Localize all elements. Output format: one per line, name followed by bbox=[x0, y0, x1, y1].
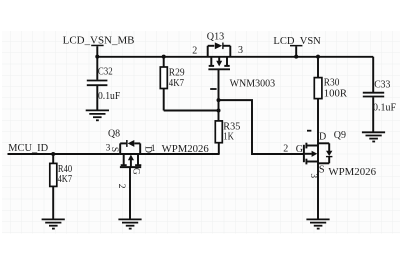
svg-text:4K7: 4K7 bbox=[169, 78, 184, 89]
svg-text:S: S bbox=[319, 164, 325, 175]
gate plate bbox=[120, 166, 141, 168]
resistor R30 bbox=[314, 55, 348, 142]
resistor R35 bbox=[215, 121, 240, 154]
svg-text:C32: C32 bbox=[98, 66, 113, 77]
wire port tick bbox=[295, 46, 297, 56]
pin 1 label (rotated) bbox=[307, 130, 311, 132]
wire R35 bottom to Q8 drain bbox=[142, 153, 220, 155]
svg-text:1: 1 bbox=[151, 144, 156, 154]
resistor R40 bbox=[50, 154, 72, 219]
left contact bbox=[123, 154, 125, 165]
main wire through symbol bbox=[119, 153, 141, 155]
svg-text:MCU_ID: MCU_ID bbox=[8, 142, 48, 154]
top contact bbox=[307, 145, 318, 147]
grid background bbox=[2, 31, 400, 234]
wire to Q9 gate bbox=[219, 100, 304, 154]
drain wire / bus bbox=[317, 142, 319, 166]
node junction gate net 1 bbox=[217, 98, 221, 102]
ground (R40) bbox=[42, 219, 65, 228]
arrow (points right) bbox=[305, 153, 312, 155]
svg-text:LCD_VSN_MB: LCD_VSN_MB bbox=[63, 34, 135, 46]
capacitor C33 bbox=[363, 57, 396, 132]
svg-text:3: 3 bbox=[238, 45, 243, 56]
right contact bbox=[137, 154, 139, 165]
svg-text:S: S bbox=[109, 147, 119, 152]
svg-text:WPM2026: WPM2026 bbox=[328, 167, 376, 178]
svg-text:WPM2026: WPM2026 bbox=[162, 144, 209, 155]
transistor Q8 bbox=[106, 129, 209, 219]
svg-text:100R: 100R bbox=[324, 88, 348, 99]
wire top rail bbox=[97, 56, 373, 58]
body diode loop bbox=[207, 46, 209, 57]
node junction R40 bbox=[51, 152, 55, 156]
bottom contact bbox=[307, 161, 318, 163]
gate wire down bbox=[129, 167, 131, 219]
gate plate bbox=[208, 68, 230, 70]
transistor Q9 bbox=[283, 130, 376, 178]
node junction LCD_VSN bbox=[294, 55, 298, 59]
resistor R29 bbox=[160, 55, 184, 111]
body diode loop bbox=[318, 142, 329, 144]
svg-text:0.1uF: 0.1uF bbox=[98, 91, 120, 102]
node junction gate net 2 bbox=[217, 109, 221, 113]
svg-text:4K7: 4K7 bbox=[58, 174, 73, 185]
right contact bbox=[226, 57, 228, 66]
node junction LCD_VSN_MB bbox=[95, 55, 99, 59]
ground (Q9) bbox=[306, 219, 329, 228]
gate wire bbox=[218, 69, 220, 100]
svg-text:Q9: Q9 bbox=[334, 130, 346, 141]
svg-text:Q13: Q13 bbox=[207, 31, 224, 42]
port bar LCD_VSN bbox=[290, 45, 302, 47]
svg-text:Q8: Q8 bbox=[108, 129, 120, 140]
svg-text:WNM3003: WNM3003 bbox=[230, 79, 276, 90]
ground (Q8) bbox=[118, 219, 141, 228]
wire Q9 source to ground bbox=[317, 166, 319, 220]
svg-text:R29: R29 bbox=[169, 68, 185, 79]
capacitor C32 bbox=[87, 57, 121, 110]
ground (C32) bbox=[86, 110, 109, 120]
wire gate net vertical bbox=[218, 100, 220, 121]
svg-text:2: 2 bbox=[283, 144, 288, 155]
transistor Q13 bbox=[192, 31, 275, 100]
svg-text:D: D bbox=[319, 131, 326, 142]
svg-text:3: 3 bbox=[308, 173, 318, 178]
svg-text:2: 2 bbox=[116, 184, 126, 189]
svg-text:G: G bbox=[131, 168, 141, 175]
gate plate bbox=[303, 145, 305, 162]
svg-text:C33: C33 bbox=[374, 79, 390, 90]
svg-text:R30: R30 bbox=[324, 77, 340, 88]
arrow (points up) bbox=[128, 155, 134, 161]
body diode loop bbox=[119, 143, 121, 154]
svg-text:2: 2 bbox=[192, 46, 197, 57]
pin 1 label (rotated) bbox=[210, 88, 216, 90]
wire port tick to rail bbox=[96, 46, 98, 57]
svg-text:1K: 1K bbox=[223, 131, 234, 142]
left contact bbox=[210, 57, 212, 66]
wire MCU_ID row bbox=[8, 153, 120, 155]
arrow (points down) bbox=[218, 57, 220, 61]
wire R29 bottom to gate net bbox=[164, 110, 219, 112]
svg-text:0.1uF: 0.1uF bbox=[373, 102, 396, 113]
ground (C33) bbox=[362, 132, 385, 141]
svg-text:G: G bbox=[296, 144, 303, 155]
port bar LCD_VSN_MB bbox=[91, 45, 103, 47]
